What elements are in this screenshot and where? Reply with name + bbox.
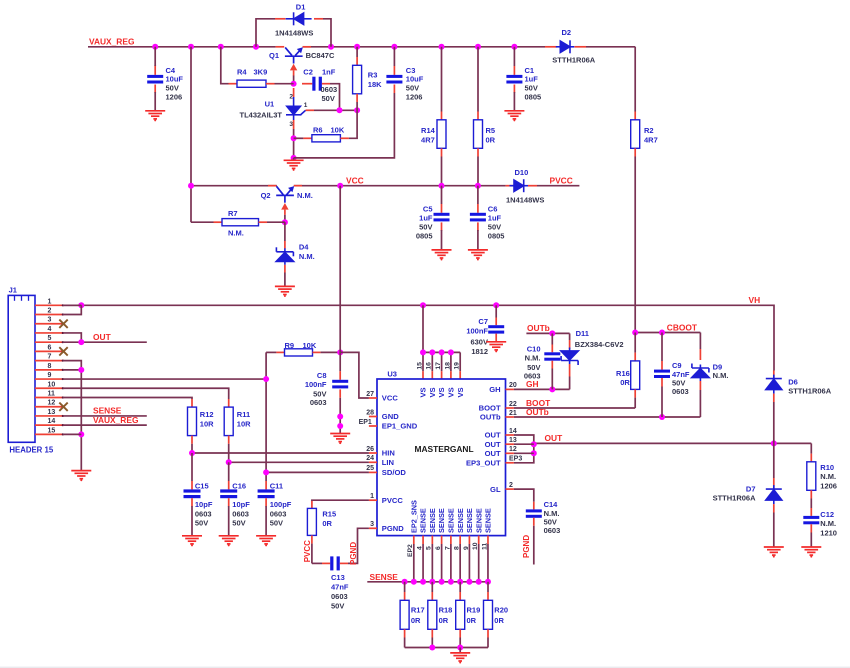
ground U1	[293, 158, 295, 160]
svg-text:0805: 0805	[525, 93, 542, 102]
svg-text:SENSE: SENSE	[465, 508, 474, 533]
wire U1 ref	[306, 109, 314, 111]
ground C11	[256, 536, 276, 544]
svg-text:C4: C4	[166, 66, 176, 75]
svg-text:100pF: 100pF	[270, 500, 292, 509]
svg-text:VS: VS	[437, 387, 446, 397]
resistor R2	[634, 112, 636, 120]
node VAUX_REG / Q2 branch	[188, 44, 194, 50]
svg-text:EP1: EP1	[359, 419, 372, 426]
svg-text:OUT: OUT	[485, 431, 501, 440]
svg-text:N.M.: N.M.	[713, 371, 729, 380]
svg-text:VS: VS	[419, 387, 428, 397]
svg-text:VAUX_REG: VAUX_REG	[93, 415, 138, 425]
node VAUX_REG / D1 right	[328, 44, 334, 50]
svg-text:25: 25	[366, 465, 374, 472]
svg-text:PGND: PGND	[349, 542, 358, 565]
svg-text:14: 14	[48, 418, 56, 425]
wire U3 bottom pin	[413, 536, 415, 544]
node VCC / C6	[475, 183, 481, 189]
wire SENSE resistor bottom rail	[405, 647, 488, 649]
ground D7	[764, 547, 784, 555]
IC U3 MASTERGANL body	[377, 379, 506, 536]
wire VS pin 17	[441, 352, 443, 371]
node GND pin28	[337, 414, 343, 420]
node pin4/pin5 OUT	[78, 339, 84, 345]
svg-text:10K: 10K	[331, 126, 345, 135]
wire R2 drop	[634, 47, 636, 112]
node VAUX_REG / C4	[152, 44, 158, 50]
svg-text:OUT: OUT	[93, 332, 112, 342]
node OUTb / C10	[549, 330, 555, 336]
svg-text:D10: D10	[515, 168, 529, 177]
U3 left pin 1 PVCC	[369, 499, 377, 501]
node CBOOT / R2	[632, 330, 638, 336]
connector J1	[8, 295, 35, 442]
svg-text:50V: 50V	[406, 84, 419, 93]
svg-text:8: 8	[48, 363, 52, 370]
svg-text:SENSE: SENSE	[456, 508, 465, 533]
node OUT pin12	[531, 450, 537, 456]
node VH / C7	[493, 302, 499, 308]
svg-text:R16: R16	[616, 369, 630, 378]
svg-text:EP1_GND: EP1_GND	[382, 422, 418, 431]
svg-text:9: 9	[48, 372, 52, 379]
wire OUT pin12 seg	[514, 452, 534, 454]
node SENSE rail pin	[411, 579, 417, 585]
svg-text:VS: VS	[428, 387, 437, 397]
node SENSE rail pin	[485, 579, 491, 585]
svg-text:0R: 0R	[411, 616, 421, 625]
wire R11 to C16	[228, 462, 230, 481]
node SENSE rail pin	[439, 579, 445, 585]
svg-text:0603: 0603	[524, 372, 541, 381]
resistor R15	[311, 501, 313, 508]
svg-text:VS: VS	[447, 387, 456, 397]
svg-text:0R: 0R	[494, 616, 504, 625]
svg-text:D6: D6	[788, 377, 798, 386]
wire VS mini-rail	[423, 351, 460, 353]
svg-text:20: 20	[509, 382, 517, 389]
svg-text:C13: C13	[331, 573, 345, 582]
wire VS drop	[422, 305, 424, 352]
wire Q2 base down	[284, 215, 286, 222]
wire PVCC	[537, 185, 579, 187]
svg-text:1: 1	[370, 493, 374, 500]
svg-text:50V: 50V	[419, 223, 432, 232]
diode D11 (zener)	[569, 333, 571, 340]
svg-text:14: 14	[509, 428, 517, 435]
node SENSE rail pin	[448, 579, 454, 585]
svg-text:Q2: Q2	[261, 191, 271, 200]
wire U3 bottom pin	[487, 536, 489, 544]
svg-text:PVCC: PVCC	[382, 496, 404, 505]
svg-text:R6: R6	[313, 126, 323, 135]
wire VS pin 18	[450, 352, 452, 371]
no-connect pin 3	[59, 320, 67, 328]
wire OUT pins ladder	[514, 435, 534, 463]
node U1 ref / R3 / R6	[354, 107, 360, 113]
svg-text:10pF: 10pF	[232, 500, 250, 509]
ground D4	[275, 286, 295, 294]
wire VAUX_REG rail	[88, 46, 276, 48]
capacitor C6	[477, 186, 479, 204]
svg-text:1206: 1206	[166, 93, 183, 102]
node U1 anode / C3 return	[291, 155, 297, 161]
svg-text:15: 15	[416, 362, 423, 370]
diode D1 loop wires	[256, 19, 275, 47]
svg-text:5: 5	[48, 335, 52, 342]
resistor R4	[221, 47, 229, 84]
wire VS pin 19	[459, 352, 461, 371]
shunt regulator U1 TL432	[293, 88, 295, 97]
resistor R19	[459, 582, 461, 592]
wire header pin8 / ground leg	[63, 369, 82, 371]
wire VCC jog to pin27	[340, 352, 369, 398]
wire U3 bottom pin	[468, 536, 470, 544]
svg-text:PGND: PGND	[522, 535, 531, 558]
svg-text:BC847C: BC847C	[306, 51, 335, 60]
J1 pin 6	[35, 350, 62, 352]
resistor R9	[266, 351, 276, 353]
node VS rail	[429, 349, 435, 355]
svg-text:C1: C1	[525, 66, 535, 75]
svg-text:R5: R5	[486, 126, 496, 135]
node VS rail	[439, 349, 445, 355]
svg-text:D7: D7	[746, 484, 756, 493]
svg-text:21: 21	[509, 410, 517, 417]
svg-text:1N4148WS: 1N4148WS	[275, 29, 313, 38]
svg-text:0603: 0603	[672, 387, 689, 396]
svg-text:C15: C15	[195, 482, 209, 491]
node U1 ref / C2	[337, 107, 343, 113]
svg-text:50V: 50V	[313, 389, 326, 398]
J1 pin 13	[35, 415, 62, 417]
wire OUTb upper	[526, 332, 569, 334]
node VAUX_REG / C1	[511, 44, 517, 50]
diode D10	[506, 185, 514, 187]
ground C5	[432, 250, 452, 258]
svg-text:12: 12	[48, 400, 56, 407]
node VAUX_REG / R5	[475, 44, 481, 50]
svg-text:3: 3	[48, 317, 52, 324]
svg-text:47nF: 47nF	[331, 583, 349, 592]
bottom screenshot edge line	[0, 667, 850, 668]
svg-text:C12: C12	[820, 510, 834, 519]
J1 pin 14	[35, 424, 62, 426]
wire C2 to U1 ref	[330, 84, 340, 111]
svg-text:6: 6	[48, 344, 52, 351]
U3 right pin 12 OUT	[506, 452, 514, 454]
wire LIN net	[229, 461, 369, 463]
svg-text:SENSE: SENSE	[370, 572, 399, 582]
wire VCC drop (rail to C8)	[339, 186, 341, 372]
wire CBOOT rail	[635, 332, 700, 334]
node R9 / VCC drop	[337, 349, 343, 355]
ground C12	[801, 547, 821, 555]
svg-text:2: 2	[48, 308, 52, 315]
svg-text:630V: 630V	[470, 337, 488, 346]
ground C15	[182, 536, 202, 544]
svg-text:U1: U1	[265, 100, 275, 109]
U3 right pin EP3 EP3_OUT	[506, 462, 514, 464]
node VCC / C5	[439, 183, 445, 189]
svg-text:10R: 10R	[200, 419, 214, 428]
node bottom rail ground	[457, 645, 463, 651]
J1 pin 2	[35, 314, 62, 316]
svg-text:STTH1R06A: STTH1R06A	[788, 386, 832, 395]
svg-text:OUTb: OUTb	[480, 413, 501, 422]
node GH / C10	[549, 386, 555, 392]
svg-text:D2: D2	[562, 28, 572, 37]
svg-text:PVCC: PVCC	[303, 540, 312, 562]
node VAUX_REG / C3	[391, 44, 397, 50]
node VAUX_REG / R3	[354, 44, 360, 50]
svg-text:50V: 50V	[525, 84, 538, 93]
U3 right pin 20 GH	[506, 388, 514, 390]
node SENSE / R17	[402, 579, 408, 585]
wire header pin9 (to SD/OD branch)	[63, 378, 266, 380]
svg-text:50V: 50V	[322, 94, 335, 103]
svg-text:SENSE: SENSE	[484, 508, 493, 533]
svg-text:10pF: 10pF	[195, 500, 213, 509]
svg-text:2: 2	[509, 482, 513, 489]
capacitor C13	[312, 562, 322, 564]
diode D7	[773, 443, 775, 478]
svg-text:50V: 50V	[166, 84, 179, 93]
svg-text:1uF: 1uF	[488, 213, 502, 222]
U3 right pin 22 BOOT	[506, 407, 514, 409]
svg-text:0R: 0R	[439, 616, 449, 625]
node SENSE rail pin	[420, 579, 426, 585]
svg-text:SENSE: SENSE	[419, 508, 428, 533]
svg-text:0603: 0603	[321, 85, 338, 94]
wire R2 to CBOOT node	[634, 157, 636, 333]
wire header pin7	[63, 361, 82, 370]
resistor R6	[294, 137, 304, 139]
svg-text:19: 19	[454, 362, 461, 370]
svg-text:VCC: VCC	[346, 176, 364, 186]
resistor R14	[441, 47, 443, 112]
svg-text:D4: D4	[299, 243, 309, 252]
svg-text:N.M.: N.M.	[820, 519, 836, 528]
svg-text:STTH1R06A: STTH1R06A	[552, 56, 596, 65]
wire VAUX_REG to VCC branch	[190, 47, 192, 222]
wire OUT pin13 seg	[514, 443, 534, 445]
wire header pin10 (to R11)	[63, 388, 229, 399]
capacitor C11	[265, 481, 267, 489]
svg-text:VAUX_REG: VAUX_REG	[89, 36, 134, 46]
J1 pin 15	[35, 433, 62, 435]
svg-text:C3: C3	[406, 66, 416, 75]
svg-text:C6: C6	[488, 204, 498, 213]
svg-text:1: 1	[304, 102, 308, 109]
capacitor C15	[191, 481, 193, 489]
svg-text:OUT: OUT	[545, 433, 564, 443]
ground J1	[71, 471, 91, 479]
capacitor C8	[339, 371, 341, 380]
wire BOOT net	[514, 407, 635, 409]
svg-text:OUT: OUT	[485, 440, 501, 449]
J1 pin 7	[35, 360, 62, 362]
svg-text:R3: R3	[368, 70, 378, 79]
svg-text:12: 12	[509, 446, 517, 453]
svg-text:50V: 50V	[232, 519, 245, 528]
svg-text:R18: R18	[439, 606, 453, 615]
node bottom rail R18	[429, 645, 435, 651]
svg-text:R9: R9	[285, 341, 295, 350]
svg-text:0R: 0R	[486, 135, 496, 144]
node VCC / VCC drop	[337, 183, 343, 189]
svg-text:0603: 0603	[310, 398, 327, 407]
U3 left pin 3 PGND	[369, 527, 377, 529]
svg-text:50V: 50V	[270, 519, 283, 528]
svg-text:R15: R15	[322, 510, 336, 519]
node HIN / R12 / C15	[189, 450, 195, 456]
wire C3 to U1 anode	[294, 93, 395, 158]
svg-text:27: 27	[366, 391, 374, 398]
node VAUX_REG / R14	[439, 44, 445, 50]
capacitor C5	[441, 186, 443, 204]
svg-text:10R: 10R	[237, 419, 251, 428]
U3 left pin 28 GND	[369, 416, 377, 418]
svg-text:1N4148WS: 1N4148WS	[506, 195, 544, 204]
svg-text:0603: 0603	[331, 592, 348, 601]
wire VCC rail	[191, 185, 277, 187]
svg-text:10K: 10K	[303, 341, 317, 350]
svg-text:U3: U3	[387, 370, 397, 379]
svg-text:N.M.: N.M.	[297, 191, 313, 200]
svg-text:10uF: 10uF	[166, 75, 184, 84]
svg-text:EP2_SNS: EP2_SNS	[409, 500, 418, 533]
svg-text:GND: GND	[382, 412, 399, 421]
svg-text:SENSE: SENSE	[446, 508, 455, 533]
resistor R20	[487, 582, 489, 592]
no-connect pin 12	[59, 403, 67, 411]
wire SENSE rail	[367, 581, 488, 583]
svg-text:0603: 0603	[195, 509, 212, 518]
transistor Q1	[276, 46, 285, 48]
diode D4 (zener)	[284, 222, 286, 241]
wire header pin1 to VH	[63, 304, 82, 306]
svg-text:R4: R4	[237, 67, 247, 76]
svg-text:N.M.: N.M.	[525, 354, 541, 363]
svg-text:BZX384-C6V2: BZX384-C6V2	[575, 340, 624, 349]
svg-text:R20: R20	[494, 606, 508, 615]
svg-text:C7: C7	[478, 317, 488, 326]
svg-text:100nF: 100nF	[305, 380, 327, 389]
wire header pin5 / OUT	[63, 341, 147, 343]
svg-text:0805: 0805	[416, 232, 433, 241]
svg-text:18K: 18K	[368, 80, 382, 89]
capacitor C12	[810, 508, 812, 516]
ground C7	[486, 342, 506, 350]
svg-text:GH: GH	[526, 379, 539, 389]
wire HIN net	[192, 452, 369, 454]
node SD/OD / pin9	[263, 376, 269, 382]
node VCC / branch	[188, 183, 194, 189]
svg-text:50V: 50V	[527, 363, 540, 372]
svg-text:R14: R14	[421, 126, 436, 135]
svg-text:EP3: EP3	[509, 456, 522, 463]
svg-text:1812: 1812	[471, 347, 488, 356]
svg-text:LIN: LIN	[382, 458, 394, 467]
J1 pin 10	[35, 387, 62, 389]
node VAUX_REG / D1 left	[253, 44, 259, 50]
transistor Q2	[268, 185, 276, 187]
U3 left pin EP1 EP1_GND	[369, 425, 377, 427]
wire header pin2 to VH	[63, 305, 82, 314]
svg-text:EP3_OUT: EP3_OUT	[466, 459, 501, 468]
node OUTb / C9	[659, 414, 665, 420]
diode D2	[545, 46, 557, 48]
J1 pin 11	[35, 397, 62, 399]
svg-text:10uF: 10uF	[406, 75, 424, 84]
wire U3 bottom pin	[478, 536, 480, 544]
capacitor C10	[551, 333, 553, 344]
svg-text:0603: 0603	[270, 509, 287, 518]
node VH / VS drop	[420, 302, 426, 308]
wire OUTb net (pin21)	[514, 416, 701, 418]
resistor R3	[356, 47, 358, 57]
node EP1_GND	[337, 423, 343, 429]
node LIN / R11 / C16	[226, 459, 232, 465]
svg-text:OUTb: OUTb	[527, 323, 550, 333]
svg-text:R12: R12	[200, 410, 214, 419]
svg-text:R7: R7	[228, 209, 238, 218]
wire R12 to C15	[191, 453, 193, 481]
U3 right pin 14 OUT	[506, 434, 514, 436]
diode D1	[286, 12, 312, 25]
svg-text:26: 26	[366, 446, 374, 453]
svg-text:N.M.: N.M.	[820, 472, 836, 481]
wire U3 bottom pin	[431, 536, 433, 544]
wire GL to C14	[514, 489, 534, 502]
ground C6	[468, 250, 488, 258]
ground C4	[145, 111, 165, 119]
wire U3 bottom pin	[459, 536, 461, 544]
svg-text:1: 1	[48, 298, 52, 305]
svg-text:16: 16	[426, 362, 433, 370]
resistor R17	[404, 582, 406, 592]
U3 right pin 2 GL	[506, 488, 514, 490]
svg-text:4R7: 4R7	[421, 135, 435, 144]
J1 pin 4	[35, 332, 62, 334]
node OUT pin13	[531, 441, 537, 447]
resistor R16	[634, 333, 636, 353]
svg-text:GH: GH	[489, 385, 500, 394]
svg-text:SD/OD: SD/OD	[382, 468, 407, 477]
resistor R7	[191, 221, 214, 223]
capacitor C7	[495, 305, 497, 317]
svg-text:1210: 1210	[820, 528, 837, 537]
wire SD/OD branch	[265, 352, 267, 481]
svg-text:N.M.: N.M.	[299, 252, 315, 261]
J1 pin 1	[35, 304, 62, 306]
resistor R11	[228, 399, 230, 407]
ground C8	[330, 434, 350, 442]
svg-text:J1: J1	[9, 285, 17, 294]
node SD/OD / C11	[263, 469, 269, 475]
node VS rail	[448, 349, 454, 355]
resistor R5	[477, 47, 479, 112]
wire VS pin 15	[422, 352, 424, 371]
capacitor C14	[533, 502, 535, 510]
svg-text:VCC: VCC	[382, 394, 399, 403]
svg-text:C8: C8	[317, 371, 327, 380]
svg-text:C11: C11	[270, 482, 283, 491]
J1 pin 12	[35, 406, 62, 408]
